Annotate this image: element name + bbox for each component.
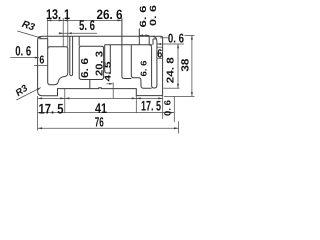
svg-text:5. 6: 5. 6 — [79, 17, 95, 33]
svg-text:17. 5: 17. 5 — [39, 101, 64, 117]
svg-text:4. 5: 4. 5 — [103, 61, 113, 81]
svg-text:17. 5: 17. 5 — [141, 98, 161, 114]
svg-text:0. 6: 0. 6 — [163, 100, 173, 116]
svg-text:0. 6: 0. 6 — [15, 44, 31, 59]
svg-text:0. 6: 0. 6 — [168, 31, 184, 46]
svg-text:76: 76 — [95, 114, 104, 129]
svg-text:6. 6: 6. 6 — [138, 6, 148, 28]
svg-text:0. 6: 0. 6 — [148, 5, 158, 26]
svg-text:26. 6: 26. 6 — [97, 7, 123, 22]
svg-text:6. 6: 6. 6 — [139, 60, 149, 76]
svg-text:24. 8: 24. 8 — [166, 57, 177, 84]
svg-text:38: 38 — [180, 58, 192, 71]
svg-text:6: 6 — [39, 55, 44, 67]
svg-text:13. 1: 13. 1 — [46, 6, 70, 22]
svg-text:6: 6 — [157, 46, 162, 60]
svg-text:6. 6: 6. 6 — [80, 57, 91, 78]
